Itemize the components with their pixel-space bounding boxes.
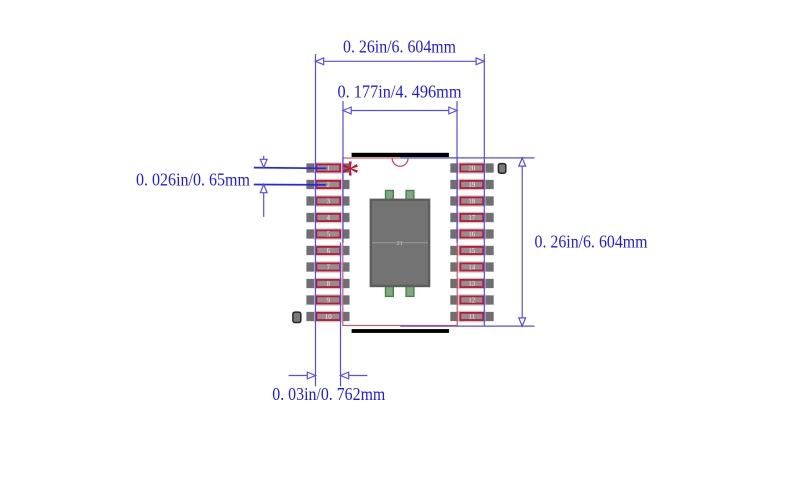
dimension line top inner bbox=[343, 110, 457, 112]
svg-text:1: 1 bbox=[327, 166, 330, 173]
paste via bottom-left bbox=[386, 286, 394, 296]
pad 13 copper bbox=[450, 279, 493, 288]
svg-text:14: 14 bbox=[468, 265, 475, 272]
pad 7 outline and number bbox=[314, 261, 342, 273]
pad 16 outline and number bbox=[458, 228, 485, 240]
dimension line top outer bbox=[316, 60, 485, 62]
leader line pin1 bbox=[254, 167, 326, 170]
via right near pad 20 bbox=[498, 164, 505, 174]
pad 13 outline and number bbox=[458, 278, 485, 290]
svg-text:*: * bbox=[341, 153, 360, 195]
pad 5 copper bbox=[306, 229, 349, 238]
arrowhead right dim down bbox=[519, 318, 526, 326]
arrowhead pitch dim down bbox=[260, 159, 267, 167]
svg-text:0. 26in/6. 604mm: 0. 26in/6. 604mm bbox=[535, 232, 648, 252]
pad 2 outline and number bbox=[314, 179, 342, 191]
pad 16 copper bbox=[450, 229, 493, 238]
arrowhead bottom dim left bbox=[341, 372, 349, 379]
svg-text:13: 13 bbox=[468, 281, 475, 288]
pad 8 outline and number bbox=[314, 278, 342, 290]
pad 4 copper bbox=[306, 213, 349, 222]
pad 6 copper bbox=[306, 246, 349, 255]
extension line right-dim top bbox=[400, 157, 534, 159]
via left near pad 10 bbox=[293, 312, 301, 322]
pad 14 outline and number bbox=[458, 261, 485, 273]
pad 15 outline and number bbox=[458, 245, 485, 257]
pad 5 outline and number bbox=[314, 228, 342, 240]
pad 1 outline and number bbox=[314, 162, 342, 174]
pad 15 copper bbox=[450, 246, 493, 255]
extension line bottom-dim-right bbox=[340, 243, 342, 387]
svg-text:21: 21 bbox=[397, 240, 404, 247]
pad 18 copper bbox=[450, 196, 493, 205]
pad 20 copper bbox=[450, 163, 493, 172]
extension line outer-right bbox=[483, 54, 485, 327]
pad 6 outline and number bbox=[314, 245, 342, 257]
svg-text:17: 17 bbox=[468, 215, 475, 222]
pad 19 copper bbox=[450, 180, 493, 189]
arrowhead pitch dim up bbox=[260, 185, 267, 193]
arrowhead top dim left bbox=[316, 58, 324, 65]
svg-text:0. 026in/0. 65mm: 0. 026in/0. 65mm bbox=[136, 170, 250, 190]
pad 9 outline and number bbox=[314, 294, 342, 306]
pad 12 outline and number bbox=[458, 294, 485, 306]
pad 2 copper bbox=[306, 180, 349, 189]
pin1 notch arc bbox=[392, 158, 408, 166]
pad 3 copper bbox=[306, 196, 349, 205]
pad 19 outline and number bbox=[458, 179, 485, 191]
exposed pad 21 bbox=[370, 199, 431, 288]
pad 3 outline and number bbox=[314, 195, 342, 207]
pitch dim stub upper bbox=[263, 156, 265, 168]
pad 17 copper bbox=[450, 213, 493, 222]
svg-text:6: 6 bbox=[327, 248, 331, 255]
svg-text:19: 19 bbox=[468, 182, 475, 189]
extension line outer-left bbox=[315, 54, 317, 386]
paste via top-left bbox=[386, 191, 394, 201]
pad 10 copper bbox=[306, 312, 349, 321]
silkscreen bar top bbox=[352, 153, 449, 157]
pad 10 outline and number bbox=[314, 311, 342, 323]
svg-text:3: 3 bbox=[327, 199, 331, 206]
bottom dim shaft right bbox=[341, 375, 368, 377]
pad 7 copper bbox=[306, 262, 349, 271]
arrowhead top dim right bbox=[476, 58, 484, 65]
pad 8 copper bbox=[306, 279, 349, 288]
svg-text:7: 7 bbox=[327, 265, 331, 272]
pad 4 outline and number bbox=[314, 212, 342, 224]
svg-text:15: 15 bbox=[468, 248, 475, 255]
paste via bottom-right bbox=[406, 286, 414, 296]
bottom dim shaft left bbox=[289, 375, 316, 377]
extension line inner-left bbox=[342, 101, 344, 243]
svg-text:12: 12 bbox=[468, 298, 475, 305]
svg-text:11: 11 bbox=[469, 314, 476, 321]
svg-text:20: 20 bbox=[468, 166, 475, 173]
leader line pin2 bbox=[254, 184, 326, 186]
svg-text:0. 177in/4. 496mm: 0. 177in/4. 496mm bbox=[338, 81, 462, 101]
svg-text:5: 5 bbox=[327, 232, 331, 239]
silkscreen bar bottom bbox=[352, 329, 450, 333]
svg-text:4: 4 bbox=[327, 215, 331, 222]
pad 9 copper bbox=[306, 295, 349, 304]
arrowhead inner dim left bbox=[343, 107, 351, 114]
extension line right-dim bottom bbox=[400, 325, 534, 327]
arrowhead right dim up bbox=[519, 158, 526, 166]
pad 14 copper bbox=[450, 262, 493, 271]
svg-text:0. 26in/6. 604mm: 0. 26in/6. 604mm bbox=[343, 37, 456, 57]
pad 20 outline and number bbox=[458, 162, 485, 174]
pad 12 copper bbox=[450, 295, 493, 304]
pad 11 outline and number bbox=[458, 311, 485, 323]
dimension line right vertical bbox=[521, 158, 523, 326]
package body outline bbox=[343, 158, 457, 326]
svg-text:0. 03in/0. 762mm: 0. 03in/0. 762mm bbox=[272, 384, 385, 404]
svg-text:8: 8 bbox=[327, 281, 331, 288]
pitch dim stub lower bbox=[263, 185, 265, 217]
svg-text:18: 18 bbox=[468, 199, 475, 206]
pad 18 outline and number bbox=[458, 195, 485, 207]
extension line inner-right bbox=[456, 101, 458, 243]
pad 17 outline and number bbox=[458, 212, 485, 224]
svg-text:10: 10 bbox=[325, 314, 332, 321]
svg-text:9: 9 bbox=[327, 298, 331, 305]
arrowhead bottom dim right bbox=[307, 372, 315, 379]
pad 11 copper bbox=[450, 312, 493, 321]
paste via top-right bbox=[406, 191, 414, 201]
arrowhead inner dim right bbox=[449, 107, 457, 114]
svg-text:2: 2 bbox=[327, 182, 331, 189]
pad 1 copper bbox=[306, 163, 349, 172]
svg-text:16: 16 bbox=[468, 232, 475, 239]
